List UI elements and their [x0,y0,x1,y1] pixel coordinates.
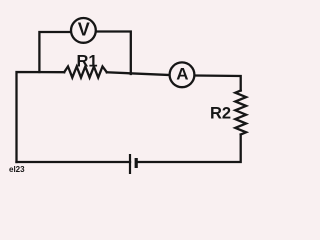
svg-text:R1: R1 [76,53,97,71]
svg-text:el23: el23 [9,165,25,174]
svg-text:A: A [176,65,188,84]
svg-text:R2: R2 [210,105,231,123]
svg-text:V: V [78,20,90,40]
